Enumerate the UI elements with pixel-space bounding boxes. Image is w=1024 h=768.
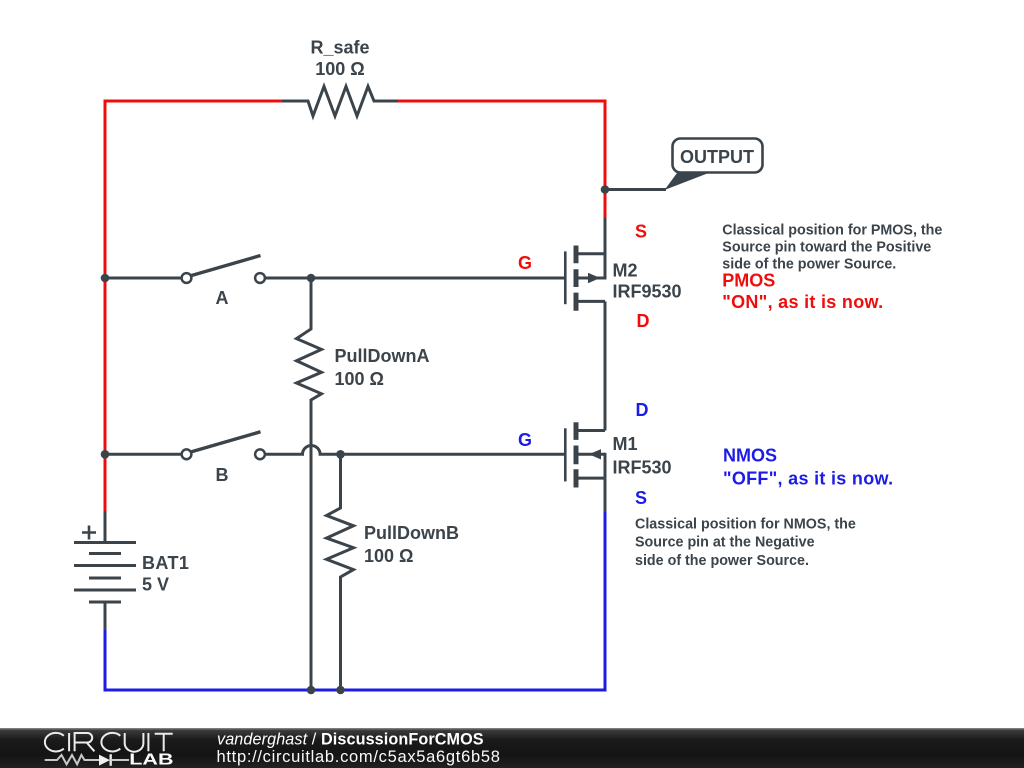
transistor M2 drain connection xyxy=(577,300,605,303)
transistor M1 source lead xyxy=(604,478,607,513)
transistor M2 channel segments xyxy=(574,246,579,311)
wire: OUTPUT tap xyxy=(605,188,666,191)
svg-text:A: A xyxy=(216,288,229,308)
wire: left rail bottom (blue, V-) xyxy=(104,630,107,692)
svg-text:PMOS: PMOS xyxy=(722,270,775,290)
svg-text:G: G xyxy=(518,430,532,450)
transistor M2 body link xyxy=(604,253,607,280)
svg-text:M1: M1 xyxy=(613,434,638,454)
wire: red segment below OUTPUT node to M2 source lead xyxy=(604,190,607,219)
svg-text:PullDownB: PullDownB xyxy=(364,523,459,543)
svg-text:M2: M2 xyxy=(613,261,638,281)
svg-text:NMOS: NMOS xyxy=(723,445,777,465)
switch A lever xyxy=(192,256,261,276)
wire: M1 source to bottom rail (blue) xyxy=(604,512,607,692)
logo CIRCUIT (thin letters) xyxy=(45,733,173,752)
transistor M1 drain connection xyxy=(577,429,605,432)
flag OUTPUT pointer xyxy=(665,173,709,190)
svg-text:Classical position for NMOS, t: Classical position for NMOS, the xyxy=(635,517,856,533)
svg-text:OUTPUT: OUTPUT xyxy=(680,147,754,167)
svg-text:5 V: 5 V xyxy=(142,575,169,595)
svg-text:D: D xyxy=(636,400,649,420)
node: PullDownB to bottom rail xyxy=(336,686,345,695)
resistor PullDownA (vertical) xyxy=(297,278,322,690)
switch B: wire from left rail to pole xyxy=(105,453,181,456)
node: junction switch A wire / PullDownA xyxy=(307,274,316,283)
node: junction left rail / switch A xyxy=(101,274,110,283)
wire: M2 drain to M1 drain xyxy=(604,301,607,430)
svg-text:vanderghast / DiscussionForCMO: vanderghast / DiscussionForCMOS xyxy=(217,731,484,749)
wire: switch A to M2 gate xyxy=(266,277,565,280)
svg-text:S: S xyxy=(635,222,647,242)
switch A: wire from left rail to pole xyxy=(105,277,181,280)
svg-text:IRF530: IRF530 xyxy=(613,457,672,477)
svg-text:G: G xyxy=(518,253,532,273)
svg-text:side of the power Source.: side of the power Source. xyxy=(635,553,809,569)
transistor M1 body link xyxy=(604,453,607,478)
switch B throw circle xyxy=(255,449,265,459)
svg-text:B: B xyxy=(216,465,229,485)
svg-text:BAT1: BAT1 xyxy=(142,553,189,573)
switch A pole circle xyxy=(182,273,192,283)
node: junction switch B wire / PullDownB xyxy=(336,450,345,459)
transistor M1 source connection xyxy=(577,477,605,480)
op: transistor M2 PMOS gate bar xyxy=(564,251,567,304)
transistor M2 body connection with arrow xyxy=(577,277,605,280)
switch B pole circle xyxy=(182,449,192,459)
node: PullDownA to bottom rail xyxy=(307,686,316,695)
battery BAT1: top lead xyxy=(104,511,107,543)
resistor PullDownB (vertical) xyxy=(327,454,354,690)
svg-text:100 Ω: 100 Ω xyxy=(315,59,364,79)
node: junction left rail / switch B xyxy=(101,450,110,459)
flag OUTPUT box xyxy=(673,139,763,173)
svg-text:Source pin toward the Positive: Source pin toward the Positive xyxy=(722,240,931,256)
transistor M1 channel segments xyxy=(574,422,579,487)
svg-text:100 Ω: 100 Ω xyxy=(335,369,384,389)
wire: bottom rail (blue) xyxy=(104,689,607,692)
switch B lever xyxy=(192,432,261,452)
node: OUTPUT junction xyxy=(601,185,610,194)
svg-text:D: D xyxy=(637,311,650,331)
svg-text:100 Ω: 100 Ω xyxy=(364,546,413,566)
svg-text:Source pin at the Negative: Source pin at the Negative xyxy=(635,535,815,551)
svg-text:PullDownA: PullDownA xyxy=(335,346,430,366)
transistor M1 NMOS gate bar xyxy=(564,428,567,481)
svg-text:S: S xyxy=(635,488,647,508)
switch A throw circle xyxy=(255,273,265,283)
battery BAT1 plus sign xyxy=(82,526,96,540)
wire: top rail right of R_safe down to OUTPUT node (red) xyxy=(397,101,605,190)
svg-text:"ON", as it is now.: "ON", as it is now. xyxy=(722,292,883,312)
wire: left rail (red, V+) xyxy=(104,100,107,513)
svg-text:Classical position for PMOS, t: Classical position for PMOS, the xyxy=(722,223,942,239)
footer bar background xyxy=(0,728,1024,768)
transistor M2 source lead xyxy=(604,218,607,254)
svg-text:R_safe: R_safe xyxy=(310,38,369,58)
battery BAT1 plates xyxy=(74,543,136,603)
svg-text:LAB: LAB xyxy=(129,752,173,768)
transistor M1 body connection with arrow xyxy=(577,453,605,456)
svg-text:http://circuitlab.com/c5ax5a6g: http://circuitlab.com/c5ax5a6gt6b58 xyxy=(217,748,501,766)
logo resistor-diode glyph xyxy=(45,755,99,764)
resistor R_safe xyxy=(282,86,398,116)
svg-text:IRF9530: IRF9530 xyxy=(613,282,682,302)
wire: switch B to M1 gate with hop over PullDownA xyxy=(266,446,565,455)
svg-text:"OFF", as it is now.: "OFF", as it is now. xyxy=(723,469,893,489)
wire: top rail left of R_safe (red) xyxy=(104,100,284,103)
battery BAT1 bottom lead xyxy=(104,602,107,631)
transistor M2 source connection xyxy=(577,252,605,255)
